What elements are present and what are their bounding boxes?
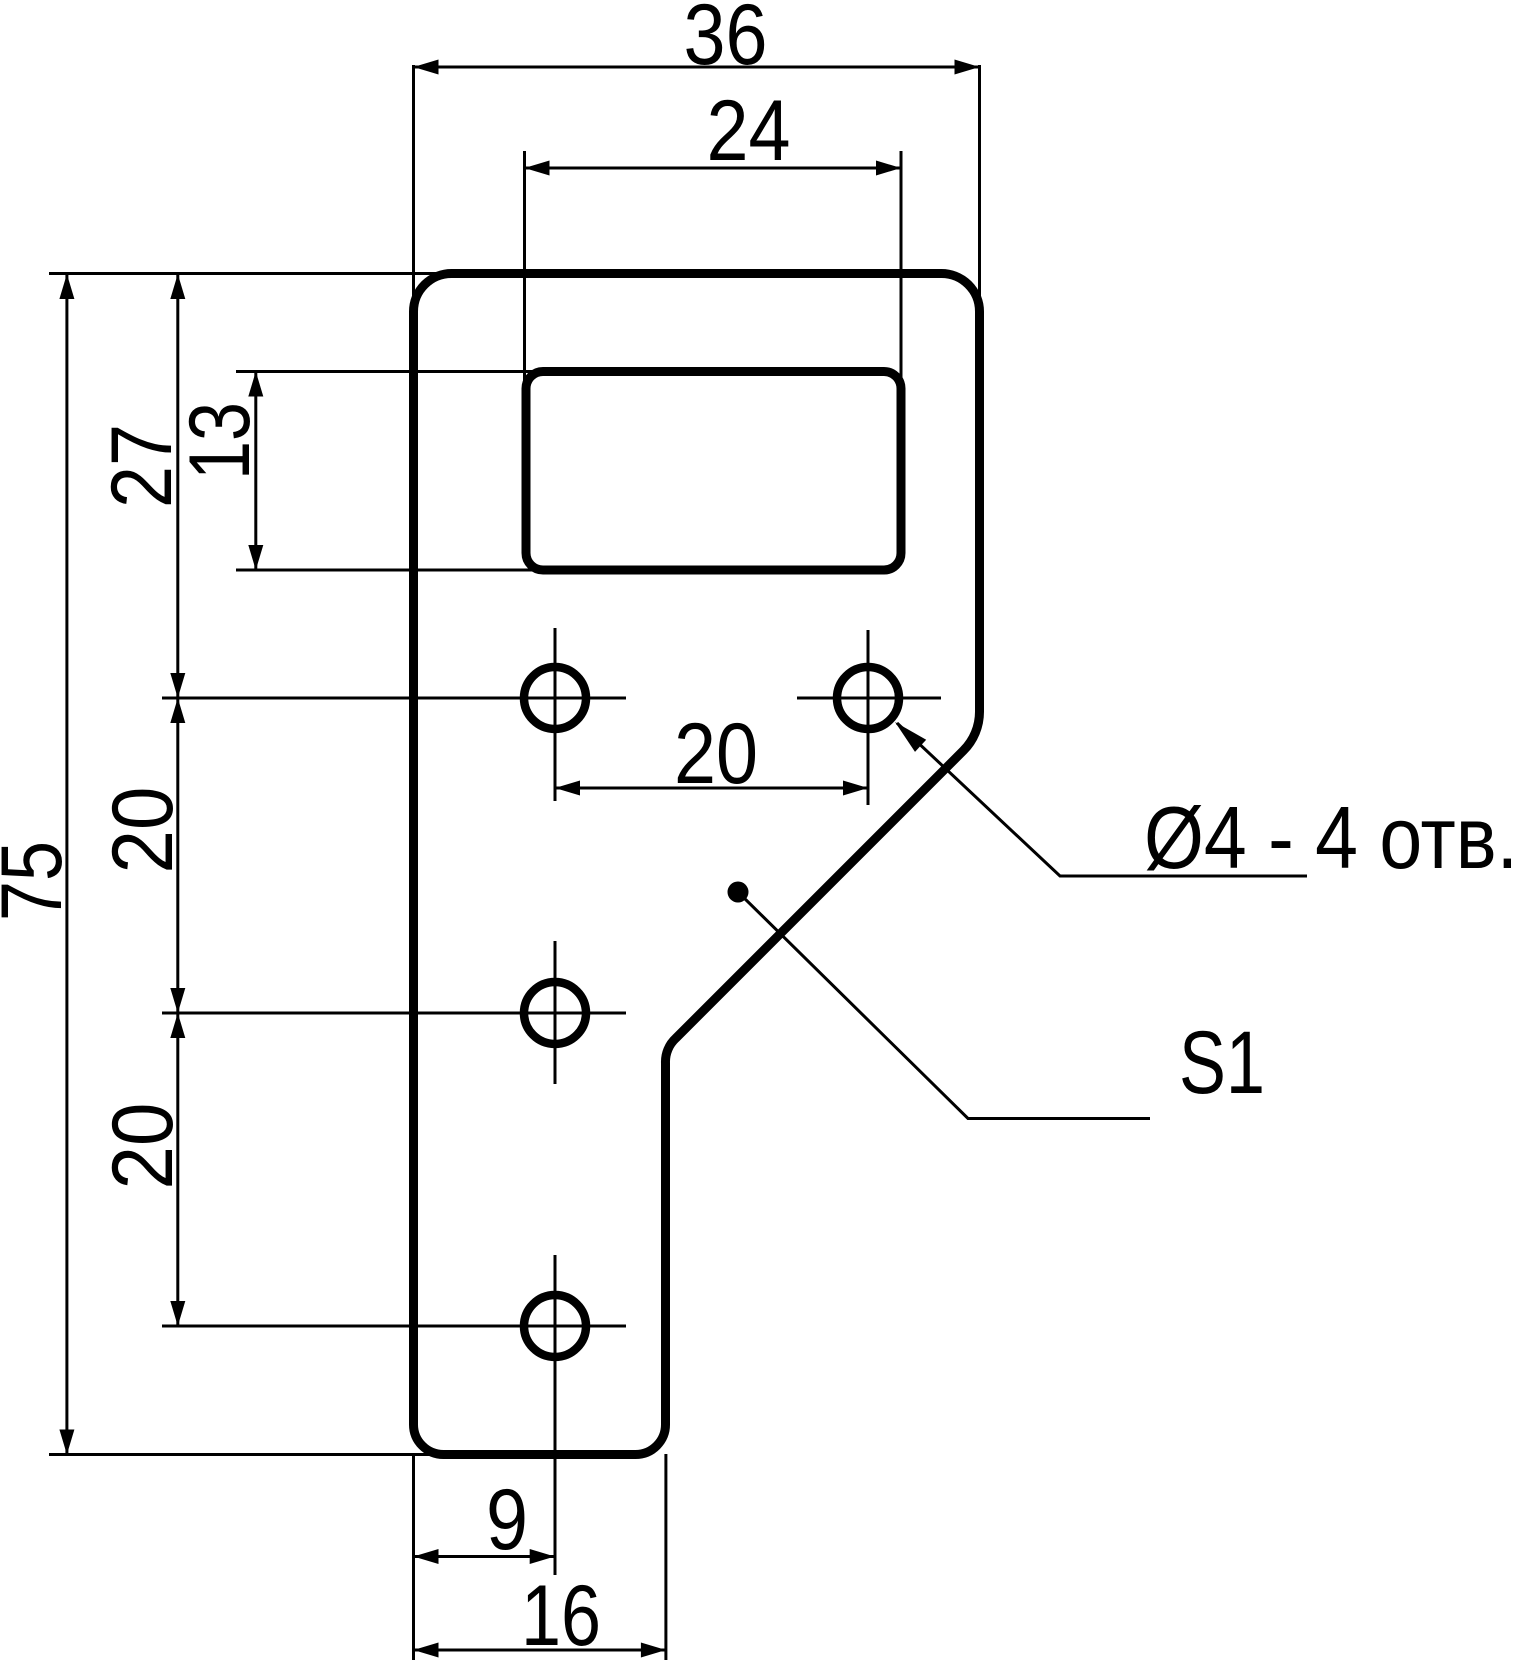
extension line hole row 2 y=1013 [162,1012,626,1015]
extension line hole row 3 y=1326 [162,1325,626,1328]
dimension line 9 [414,1555,555,1558]
svg-text:S1: S1 [1179,1012,1265,1112]
rectangular slot [526,372,901,571]
extension line hole row 1 y=698 [162,697,626,700]
part outline [413,273,979,1454]
svg-text:9: 9 [486,1472,528,1568]
svg-text:20: 20 [674,706,758,802]
dimension line 24 [525,167,902,170]
arrow 20b bottom [170,1301,185,1326]
svg-text:24: 24 [707,83,791,179]
arrow 20h left [555,781,580,796]
dimension line 27/20/20 shared vertical x=177.8 [176,274,179,1326]
dimension line 20 horizontal [555,787,868,790]
centerline H1 vertical [554,628,557,801]
arrow 24 left [525,161,550,176]
arrow 27 bottom [170,673,185,698]
leader S1 dot [728,882,749,903]
arrow 13 bottom [248,545,263,570]
svg-text:20: 20 [95,1103,191,1190]
svg-text:20: 20 [95,787,191,874]
extension line left edge top x=413.5 [412,65,415,322]
svg-text:36: 36 [684,0,768,83]
arrow 36 right [955,60,980,75]
arrow 16 left [414,1643,439,1658]
arrow 13 top [248,372,263,397]
hole H1 top-left [524,667,586,729]
hole H4 bottom [524,1295,586,1357]
centerline H4 vertical [554,1255,557,1575]
arrow 20b top [170,1013,185,1038]
arrow 16 right [641,1643,666,1658]
extension line right edge top x=979.5 [978,65,981,312]
centerline H2 vertical [867,630,870,805]
arrow 20h right [843,781,868,796]
extension line left edge bottom x=413.5 [412,1454,415,1660]
extension line slot right x=901 [900,151,903,385]
extension line bottom edge y=1454.5 [49,1453,500,1456]
arrow 36 left [414,60,439,75]
dimension line 36 [414,66,980,69]
hole H3 middle [524,982,586,1044]
svg-text:75: 75 [0,841,80,921]
hole H2 top-right [837,667,899,729]
dimension line 75 [65,274,68,1455]
extension line narrow right edge bottom x=665.9 [664,1454,667,1660]
leader holes callout line [897,723,1307,876]
extension line slot top y=371.5 [236,370,548,373]
dimension line 16 [414,1649,666,1652]
leader S1 line [738,892,1150,1119]
centerline H3 vertical [554,941,557,1084]
leader holes arrow [895,722,926,752]
arrow 20a bottom [170,988,185,1013]
arrow 27 top [170,274,185,299]
arrow 9 left [414,1549,439,1564]
extension line slot left x=524.5 [523,151,526,385]
extension line slot bottom y=570 [236,569,548,572]
extension line top edge y=273.5 [49,272,458,275]
svg-text:13: 13 [172,402,268,480]
centerline H2 horizontal [797,697,941,700]
arrow 20a top [170,698,185,723]
dimension line 13 [254,372,257,571]
svg-text:16: 16 [521,1568,601,1660]
arrow 9 right [530,1549,555,1564]
svg-text:Ø4 - 4 отв.: Ø4 - 4 отв. [1144,788,1518,887]
arrow 75 top [59,274,74,299]
arrow 24 right [876,161,901,176]
arrow 75 bottom [59,1430,74,1455]
